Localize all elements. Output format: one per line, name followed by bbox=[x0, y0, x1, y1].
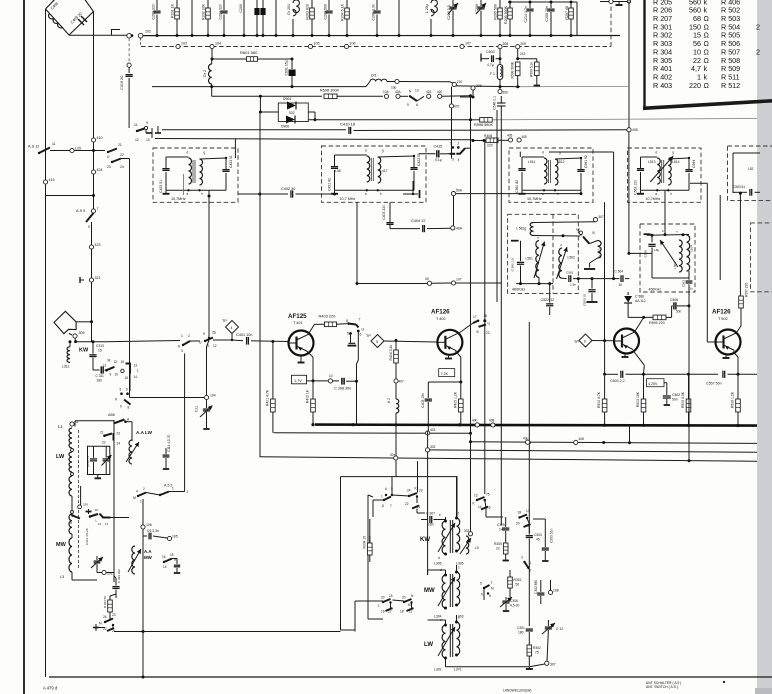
svg-text:B: B bbox=[477, 330, 479, 334]
svg-text:g: g bbox=[672, 151, 674, 155]
T502 collector and R507 220 bbox=[737, 326, 742, 333]
bottom border line bbox=[49, 676, 772, 678]
oscillator bottom wire bbox=[446, 666, 530, 668]
scan edge grey strip right bbox=[757, 0, 772, 694]
svg-text:C206: C206 bbox=[475, 4, 479, 13]
svg-text:405: 405 bbox=[507, 134, 513, 138]
node 105 right bbox=[167, 536, 171, 540]
svg-text:C601 15μ: C601 15μ bbox=[285, 60, 289, 76]
svg-text:L8μ: L8μ bbox=[654, 248, 659, 252]
wire from diamond right corner down bbox=[93, 12, 95, 139]
svg-text:A56: A56 bbox=[108, 413, 115, 417]
svg-text:h: h bbox=[380, 192, 382, 196]
svg-text:C557 50n: C557 50n bbox=[706, 382, 722, 386]
node 104 left bbox=[204, 395, 208, 399]
svg-text:10,7MHz: 10,7MHz bbox=[171, 197, 186, 201]
svg-text:307: 307 bbox=[550, 663, 556, 667]
long wire y=87 bbox=[152, 86, 366, 88]
svg-text:Dr 502: Dr 502 bbox=[598, 248, 602, 258]
node 107 bbox=[451, 281, 455, 285]
capacitor C309 200 bbox=[112, 586, 119, 588]
node 403 bbox=[426, 431, 430, 435]
node 104c bbox=[387, 81, 395, 83]
top component R205 560 at x=500 bbox=[499, 0, 501, 8]
top component C209 3,3n at x=377 bbox=[376, 0, 378, 10]
svg-text:180: 180 bbox=[518, 631, 524, 635]
ground tap of C110 box bbox=[97, 475, 99, 478]
svg-text:a: a bbox=[187, 192, 189, 196]
svg-text:d: d bbox=[655, 151, 657, 155]
svg-text:C214 3,7n: C214 3,7n bbox=[524, 6, 528, 23]
svg-text:MW: MW bbox=[424, 588, 435, 594]
svg-text:d: d bbox=[187, 151, 189, 155]
vertical x=629 bus to A2 bbox=[629, 425, 631, 442]
node 309 bbox=[73, 334, 77, 338]
wire lower-left vertical x=114 bbox=[113, 420, 115, 573]
long vertical x=497 bbox=[496, 110, 498, 302]
top component C205 at x=257 bbox=[256, 0, 258, 8]
svg-text:22: 22 bbox=[405, 502, 409, 506]
node L29 bbox=[70, 148, 74, 152]
node 106b bbox=[344, 44, 348, 48]
svg-text:A 479 d: A 479 d bbox=[43, 686, 58, 691]
svg-text:3: 3 bbox=[521, 556, 523, 560]
svg-text:17: 17 bbox=[473, 315, 477, 319]
oscillator block outline bbox=[341, 477, 458, 517]
capacitor C503 2,2 bbox=[604, 341, 606, 375]
svg-text:460KHz: 460KHz bbox=[512, 288, 525, 292]
svg-text:T 401: T 401 bbox=[293, 321, 303, 325]
svg-text:C319 20: C319 20 bbox=[120, 76, 124, 90]
mid line y=138.5 bbox=[155, 139, 473, 140]
node 10 and C308 30n bbox=[328, 379, 332, 383]
svg-text:R 303 56: R 303 56 bbox=[103, 596, 107, 609]
node 206 bbox=[498, 89, 502, 93]
resistor R405 1,2K bbox=[459, 399, 464, 412]
node 104b bbox=[210, 44, 214, 48]
line A2 y=442 bbox=[471, 442, 758, 444]
svg-text:23: 23 bbox=[486, 331, 490, 335]
line B y=450 bbox=[426, 448, 430, 452]
wire from diamond bottom corner bbox=[69, 30, 127, 36]
line y=397.5 to node 104 bbox=[130, 397, 205, 399]
svg-text:C 309 200: C 309 200 bbox=[117, 569, 121, 583]
svg-text:18: 18 bbox=[400, 610, 404, 614]
node 206 area wires bbox=[460, 96, 473, 98]
thick supply bus bbox=[315, 425, 757, 426]
ferrite coil A.A LW bbox=[129, 440, 132, 464]
node 40 bbox=[427, 281, 431, 285]
capacitor C601 15u electrolytic bbox=[291, 59, 293, 69]
resistor R601 560 bbox=[212, 58, 246, 60]
capacitor C546 0,1 bbox=[497, 102, 506, 104]
svg-text:L514: L514 bbox=[672, 160, 680, 164]
capacitor C110 75 bbox=[92, 446, 94, 457]
top component drop at x=263 bbox=[262, 0, 264, 8]
svg-text:C302 880: C302 880 bbox=[534, 580, 538, 594]
svg-text:6: 6 bbox=[126, 388, 128, 392]
svg-text:C403 220: C403 220 bbox=[382, 205, 386, 220]
svg-text:302: 302 bbox=[464, 529, 470, 533]
contact row levers y=515 bbox=[71, 514, 74, 517]
capacitor C504 bbox=[620, 275, 622, 282]
svg-text:L46: L46 bbox=[335, 169, 341, 173]
svg-text:75: 75 bbox=[535, 651, 539, 655]
IF transformer box F1 10.7MHz bbox=[153, 148, 238, 202]
node 210 bbox=[452, 82, 456, 86]
svg-text:403: 403 bbox=[430, 428, 436, 432]
svg-text:208: 208 bbox=[503, 42, 509, 46]
svg-text:9: 9 bbox=[120, 405, 122, 409]
wire from IF box3 secondary bbox=[549, 151, 614, 153]
svg-text:11: 11 bbox=[105, 522, 108, 526]
svg-text:C200: C200 bbox=[239, 4, 243, 13]
svg-text:M: M bbox=[108, 359, 111, 363]
svg-text:Ω: Ω bbox=[704, 81, 710, 90]
capacitor C404 12 bbox=[400, 228, 420, 230]
svg-text:LANGWELLEN(LW): LANGWELLEN(LW) bbox=[503, 689, 531, 693]
svg-text:B: B bbox=[593, 231, 595, 235]
svg-text:C114 4,5-70: C114 4,5-70 bbox=[167, 434, 171, 452]
lower coil L3 bbox=[69, 538, 72, 572]
svg-text:D904: D904 bbox=[283, 97, 291, 101]
svg-text:C405 15n: C405 15n bbox=[421, 393, 425, 408]
svg-text:L 20μ: L 20μ bbox=[425, 4, 429, 13]
svg-text:8: 8 bbox=[382, 504, 384, 508]
svg-text:C423 51: C423 51 bbox=[159, 180, 163, 193]
svg-text:C404 12: C404 12 bbox=[411, 219, 425, 223]
svg-text:10: 10 bbox=[115, 373, 119, 377]
svg-text:C110 75: C110 75 bbox=[86, 456, 90, 467]
svg-text:C 504: C 504 bbox=[615, 270, 624, 274]
svg-text:2: 2 bbox=[457, 141, 459, 145]
coil L5 with arrow bbox=[466, 536, 469, 554]
top wire box2-460 bbox=[647, 234, 689, 237]
sub rail right top bbox=[508, 1, 577, 3]
svg-text:22: 22 bbox=[102, 441, 106, 445]
1,7V boxed label bbox=[292, 375, 307, 384]
IF transformer box F2 10.7MHz bbox=[322, 146, 427, 202]
top component L 20μ at x=431 bbox=[431, 0, 437, 16]
svg-text:21: 21 bbox=[100, 431, 104, 435]
node 209 on dashed line bbox=[516, 45, 520, 49]
fuse F1 bbox=[497, 65, 502, 80]
mid line y=119.8 bbox=[308, 119, 471, 121]
svg-text:1,8n: 1,8n bbox=[570, 283, 576, 287]
svg-text:7: 7 bbox=[359, 318, 361, 322]
svg-text:1: 1 bbox=[458, 616, 460, 620]
svg-text:C562 120: C562 120 bbox=[634, 180, 638, 195]
svg-text:15: 15 bbox=[121, 360, 125, 364]
node 424 bbox=[91, 170, 95, 174]
node 108 bbox=[548, 590, 552, 594]
svg-text:A.S 9: A.S 9 bbox=[76, 209, 85, 213]
svg-text:C561 92: C561 92 bbox=[584, 155, 588, 168]
wire from contact row to right bbox=[111, 517, 130, 519]
svg-text:303: 303 bbox=[430, 445, 436, 449]
svg-text:206: 206 bbox=[476, 84, 482, 88]
svg-text:410: 410 bbox=[97, 136, 103, 140]
svg-text:0: 0 bbox=[88, 225, 90, 229]
top component C205 25n bbox=[550, 2, 552, 8]
svg-text:L52: L52 bbox=[748, 167, 754, 171]
svg-text:L504: L504 bbox=[690, 245, 694, 252]
svg-text:C304: C304 bbox=[534, 533, 542, 537]
svg-text:20: 20 bbox=[402, 596, 406, 600]
svg-text:L3: L3 bbox=[60, 575, 64, 579]
svg-text:d: d bbox=[365, 149, 367, 153]
svg-text:6: 6 bbox=[489, 594, 491, 598]
top component R203 820 at x=312 bbox=[311, 0, 313, 8]
top component drop at x=399 bbox=[398, 0, 400, 36]
long vertical x=529 bbox=[528, 322, 530, 533]
coil L561 with arrow bbox=[536, 241, 539, 278]
AF125 emitter ground bbox=[300, 356, 302, 361]
svg-text:ANT. SWITCH ( A.S ): ANT. SWITCH ( A.S ) bbox=[646, 685, 678, 689]
coil L562 with arrow bbox=[559, 248, 562, 278]
wire down to node 106 bbox=[142, 499, 144, 525]
svg-text:210: 210 bbox=[457, 80, 463, 84]
bottom wire 460 box1 bbox=[516, 283, 553, 285]
IF transformer box F3 10.7MHz bbox=[509, 148, 593, 202]
svg-text:10A: 10A bbox=[383, 90, 390, 94]
svg-text:Dr 2: Dr 2 bbox=[203, 70, 207, 77]
bus feed from R402 bbox=[312, 413, 314, 425]
resistor R506 1,2K bbox=[737, 374, 739, 399]
svg-text:R202 32K: R202 32K bbox=[202, 3, 206, 20]
svg-text:L 581g: L 581g bbox=[516, 227, 526, 231]
svg-text:2: 2 bbox=[756, 22, 760, 31]
node at x=129 on bus bbox=[127, 33, 132, 38]
top right ground near table bbox=[600, 1, 629, 3]
svg-text:R594 220: R594 220 bbox=[649, 321, 665, 325]
feed wire from x=629 into box2-460 bbox=[628, 132, 630, 254]
stack top wires bbox=[71, 534, 73, 538]
transistor AF126 T402 bbox=[437, 330, 462, 355]
svg-text:C410 18: C410 18 bbox=[340, 122, 356, 127]
svg-text:C401 10n: C401 10n bbox=[236, 333, 252, 337]
svg-text:F 1: F 1 bbox=[490, 72, 495, 76]
top component C206 at x=481 bbox=[480, 0, 482, 6]
svg-text:C603: C603 bbox=[486, 50, 495, 54]
AF126 emitter ground bbox=[448, 355, 450, 359]
node 507 bbox=[593, 218, 597, 222]
cap C522 12 below box1 bbox=[549, 284, 551, 303]
svg-text:C560 82: C560 82 bbox=[515, 180, 519, 193]
dashed core line bbox=[78, 430, 80, 570]
svg-text:20: 20 bbox=[516, 522, 520, 526]
svg-text:10μ: 10μ bbox=[391, 86, 397, 90]
resistor R502 4,7K bbox=[604, 376, 606, 399]
node 302 bbox=[468, 532, 472, 536]
wire K1 to C305 bbox=[485, 508, 487, 517]
diode pair right connection bbox=[308, 111, 315, 113]
box2 exit vertical to line 283 bbox=[356, 202, 358, 283]
coil K2 bbox=[395, 383, 397, 399]
svg-text:R404 3,3k: R404 3,3k bbox=[389, 345, 393, 361]
svg-text:C415: C415 bbox=[434, 145, 443, 149]
svg-text:3: 3 bbox=[181, 349, 183, 353]
svg-text:AF125: AF125 bbox=[288, 313, 307, 320]
resistor R598 560K vertical bbox=[517, 49, 519, 59]
wire y=278.6 with C561 1,8n bbox=[562, 277, 567, 279]
460KHz box 2 bbox=[640, 224, 695, 292]
svg-text:M: M bbox=[408, 603, 411, 607]
node C319 top bbox=[127, 63, 131, 67]
antenna wire to vertical bbox=[76, 321, 91, 323]
svg-text:15: 15 bbox=[389, 594, 393, 598]
node 409 bbox=[526, 440, 530, 444]
node 407 bbox=[394, 379, 398, 383]
svg-text:4: 4 bbox=[136, 490, 138, 494]
emitter branch wire bbox=[307, 352, 313, 358]
svg-text:24: 24 bbox=[407, 489, 411, 493]
svg-text:321: 321 bbox=[95, 276, 101, 280]
node 107b bbox=[460, 44, 464, 48]
IF transformer box F4 10.7MHz bbox=[628, 148, 702, 202]
vertical x=613.6 down to C504 line bbox=[613, 152, 615, 279]
transistor AF126 T502 bbox=[716, 330, 741, 355]
svg-text:AF126: AF126 bbox=[712, 309, 731, 316]
svg-text:R598 100K: R598 100K bbox=[320, 89, 339, 93]
svg-text:1: 1 bbox=[450, 141, 452, 145]
bottom wire box2-460 bbox=[652, 277, 689, 279]
left page border line bbox=[23, 0, 25, 694]
line y=86.7 to right bbox=[456, 85, 520, 88]
svg-text:A.A LW: A.A LW bbox=[136, 430, 153, 435]
long vertical x=143 to bottom bbox=[142, 529, 144, 677]
svg-text:A.A: A.A bbox=[144, 549, 152, 554]
capacitor C9 3,3n bbox=[142, 529, 144, 536]
svg-text:LW: LW bbox=[424, 642, 433, 648]
svg-text:L511: L511 bbox=[528, 160, 535, 164]
svg-text:15: 15 bbox=[98, 349, 102, 353]
variable capacitor C12 bbox=[547, 620, 549, 626]
svg-text:507: 507 bbox=[599, 215, 605, 219]
svg-text:TP: TP bbox=[366, 334, 371, 338]
capacitor C563 in box5 bbox=[733, 191, 747, 193]
choke Dr-2 bbox=[208, 64, 211, 84]
svg-text:220: 220 bbox=[487, 144, 493, 148]
capacitor C306 4,5-20 trimmer bbox=[505, 597, 507, 600]
svg-text:7: 7 bbox=[97, 207, 99, 211]
svg-text:g: g bbox=[204, 151, 206, 155]
svg-text:206: 206 bbox=[503, 91, 509, 95]
IF signal line y=283 bbox=[356, 282, 359, 285]
antenna plate symbol bbox=[54, 311, 76, 333]
svg-text:20: 20 bbox=[381, 596, 385, 600]
feed wire into box1 bbox=[234, 139, 236, 159]
svg-text:R503 18K: R503 18K bbox=[636, 391, 640, 407]
top component C208 500 at x=329 bbox=[328, 0, 330, 10]
svg-text:50: 50 bbox=[516, 583, 520, 587]
coil L311 bbox=[67, 347, 70, 363]
long vertical x=470 from node206 to node 302 bbox=[470, 97, 472, 532]
svg-text:220: 220 bbox=[689, 81, 701, 90]
svg-text:209: 209 bbox=[520, 42, 526, 46]
capacitor C405 15n bbox=[425, 398, 432, 400]
svg-text:4,25V: 4,25V bbox=[648, 382, 658, 386]
svg-text:23: 23 bbox=[419, 489, 423, 493]
svg-text:0,1μ: 0,1μ bbox=[435, 158, 442, 162]
svg-text:R406: R406 bbox=[484, 134, 492, 138]
svg-text:L: L bbox=[137, 369, 139, 373]
svg-text:C9 3,3n: C9 3,3n bbox=[147, 529, 159, 533]
svg-text:1: 1 bbox=[530, 561, 532, 565]
svg-text:40h: 40h bbox=[472, 419, 478, 423]
node 423 bbox=[89, 245, 93, 249]
line C y=457-461 bbox=[260, 457, 758, 462]
svg-text:R301: R301 bbox=[514, 578, 522, 582]
capacitor C307 18n bbox=[421, 519, 428, 521]
vertical x=427 below node 303 into oscillator bbox=[427, 452, 429, 575]
svg-text:R403 220: R403 220 bbox=[319, 314, 337, 319]
svg-text:2: 2 bbox=[188, 334, 190, 338]
T502 base feed from box5 bbox=[707, 341, 715, 343]
cap C313 15 in vertical bbox=[92, 342, 94, 354]
svg-text:13: 13 bbox=[415, 89, 419, 93]
svg-text:C423 51: C423 51 bbox=[229, 155, 233, 168]
table left border bbox=[643, 0, 645, 109]
svg-text:AA 112: AA 112 bbox=[635, 299, 646, 303]
svg-text:405: 405 bbox=[522, 135, 528, 139]
svg-text:309: 309 bbox=[79, 331, 85, 335]
svg-text:10: 10 bbox=[146, 138, 150, 142]
resistor R509 5,1k bbox=[518, 58, 537, 60]
svg-text:5: 5 bbox=[480, 582, 482, 586]
svg-text:12: 12 bbox=[213, 344, 217, 348]
svg-text:L29: L29 bbox=[75, 147, 81, 151]
top component C200 at x=244 bbox=[243, 0, 245, 36]
signal line to switch bbox=[105, 341, 180, 342]
oscillator left rail bbox=[367, 495, 369, 619]
svg-text:R601 560: R601 560 bbox=[240, 50, 258, 55]
trimmer C312 4,5-20 bbox=[96, 556, 98, 560]
svg-text:105: 105 bbox=[314, 42, 320, 46]
svg-text:C422 65: C422 65 bbox=[417, 153, 421, 166]
choke Dr1 in series bbox=[370, 79, 387, 81]
svg-text:10,7MHz: 10,7MHz bbox=[527, 197, 542, 201]
resistor R303 56 bbox=[108, 600, 113, 612]
svg-text:11: 11 bbox=[52, 142, 56, 146]
wire 50A node bbox=[451, 192, 455, 196]
top component C212 3,5- at x=453 bbox=[452, 0, 454, 6]
capacitor C409 20 bbox=[78, 19, 84, 25]
top component R202 32K at x=208 bbox=[207, 0, 209, 8]
node 103 bbox=[176, 44, 180, 48]
460KHz box 1 bbox=[508, 214, 579, 293]
svg-text:L5: L5 bbox=[475, 546, 479, 550]
svg-text:107: 107 bbox=[465, 42, 471, 46]
svg-text:L302: L302 bbox=[434, 668, 442, 672]
svg-text:9: 9 bbox=[407, 103, 409, 107]
capacitor C403 220 vertical bbox=[389, 202, 391, 222]
long vertical x=484 bbox=[484, 141, 486, 495]
antenna coil stack lower bbox=[71, 496, 73, 510]
T501 emitter ground bbox=[624, 354, 626, 358]
svg-text:M: M bbox=[99, 622, 102, 626]
svg-text:14: 14 bbox=[134, 375, 138, 379]
svg-text:R509 5,1k: R509 5,1k bbox=[530, 62, 534, 77]
svg-text:40A: 40A bbox=[456, 227, 463, 231]
vertical x=451.5 down to switch bbox=[451, 87, 453, 105]
svg-text:T 402: T 402 bbox=[436, 317, 446, 321]
svg-text:21: 21 bbox=[118, 143, 122, 147]
svg-text:10: 10 bbox=[329, 374, 333, 378]
wire to C405 bbox=[428, 381, 461, 383]
capacitor C565 bbox=[644, 233, 651, 235]
svg-text:14: 14 bbox=[499, 528, 503, 532]
